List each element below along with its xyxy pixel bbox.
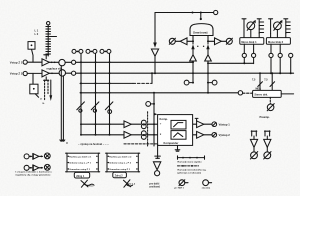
node junction J1 [192,12,194,14]
O2 slash [213,133,216,136]
trimmer TR3 [267,104,274,111]
amplifier down-triangle JA [250,139,257,147]
transistor bar Q2b [285,20,287,34]
node M2 drop dots [270,72,272,74]
compander box U2 [158,115,193,146]
O1 slash [213,123,216,126]
node R4 terminal ring [238,91,242,95]
wire JB stem [266,136,268,139]
legend wire sample 1 [178,156,205,159]
legend row A link [29,155,32,157]
legend sample 2 dots [182,165,184,167]
node extra ring [289,53,293,57]
amplifier down-triangle JB [264,139,271,147]
svg-text:regulátory síly, vstupy gramof: regulátory síly, vstupy gramofonů [15,174,51,177]
legend row B link [29,167,32,169]
wire dashed drop D1 [44,80,46,101]
wire arrow drop D3 [50,80,52,96]
legend row B amp [32,165,34,171]
wire leg1 extension [192,62,194,82]
rheostat arrow C3 [105,102,113,110]
deemph slash 1 [258,82,263,87]
LB2 source box [113,172,127,178]
node output ring O1 [212,122,217,127]
TR2 arrow [274,22,281,31]
decoder box U3 [253,90,282,97]
node mixer stem dot [200,18,202,20]
svg-text:linkový vstup L + P 1: linkový vstup L + P 1 [69,162,91,165]
ground feet V1 V2 [60,140,65,141]
node top terminal [214,10,218,14]
wire mixer leg 2 [207,36,209,45]
jack ring JB [264,152,271,159]
node leg1/T3L junction [192,40,194,42]
wire JA stem2 [253,147,255,152]
potentiometer P1 [59,59,65,65]
wire U3 right [281,93,293,95]
op-amp A2 [42,70,49,77]
svg-text:Mono blok 2: Mono blok 2 [268,40,284,44]
svg-text:Stereo dek.: Stereo dek. [254,94,268,97]
node tap ring on R4 [146,102,151,107]
legend box LB1 [67,153,98,172]
legend wire sample 2 [178,165,199,167]
tap ticks [155,156,161,158]
wire SB1 stub [189,82,193,84]
wire JA stem [253,136,255,139]
node A2 out dot [51,73,53,75]
node SB2 dot [207,82,209,84]
LB1 source box [74,172,89,178]
svg-text:1 vstupní zesilovače s korekce: 1 vstupní zesilovače s korekcemi a [15,171,52,174]
wire bus R4 [80,92,238,94]
arrow up on leg 1 [191,44,194,49]
node leg2/T3R junction [207,40,209,42]
legend row B wire [39,167,43,169]
LB2 row dots [108,156,109,157]
wire M1 outputs [244,44,253,53]
wire tap stub [151,103,154,105]
wire bus RB [81,134,197,136]
wire bus R1 [76,61,193,63]
deemph slash 2 [270,82,275,87]
node B1 dot [31,44,33,46]
node R1 dots [80,61,82,63]
node M2 rings [269,53,273,57]
legend row B target [44,164,50,170]
wire S3 link [104,50,107,52]
capacitor coupling CB [141,131,146,136]
wire ladder spine [47,25,49,56]
svg-text:Rozvody stereofonního sig.: Rozvody stereofonního sig. [178,168,207,171]
wire bus RA [81,123,197,125]
legend jack sym [179,180,185,186]
amplifier up-triangle T2b [205,55,212,61]
node M1 rings [242,53,246,57]
wire bus R5 [208,62,254,64]
node B2 marks [33,88,35,90]
LB1 row dots [68,156,69,157]
svg-text:(přístroje a zesilovače): (přístroje a zesilovače) [178,171,202,174]
IC box M1 [240,38,264,45]
LB1 flourish [81,180,88,187]
legend socket sym [203,180,209,186]
crystal box B2 [30,84,38,94]
wire T5 power tick [195,118,198,121]
Q2b ticks [286,22,290,33]
op-amp U1 mixer dome [190,24,213,36]
wire S1 link [76,50,79,52]
node R5 dots [243,62,245,64]
transistor bar Q1a [243,20,245,34]
amplifier down-triangle TAP [153,162,160,170]
node R4 dots [80,92,82,94]
wire input 1 to amp A1 [27,61,42,63]
wire vertical drop V1 [60,66,62,141]
node drop dots [259,72,261,74]
wire column C3 [109,53,111,134]
svg-text:Rozvody mono signálu: Rozvody mono signálu [178,162,203,164]
node output ring O2 [212,133,217,138]
node RB dots [80,134,82,136]
JA slash [250,152,257,159]
trimmer TR1 [247,22,255,30]
svg-text:U: U [66,141,68,145]
wire A2 bottom T-bar [44,77,49,80]
transistor bar Q1b [258,20,260,34]
wire P1 to node [65,61,71,63]
amplifier right-triangle T3R [215,38,222,45]
svg-text:zesilovač: zesilovač [149,186,160,189]
svg-text:Rozhlas po drátě st 2: Rozhlas po drátě st 2 [109,155,132,158]
capacitor coupling CA [141,120,146,125]
wire deemph drop 2 [271,73,273,90]
TR1 arrow head [253,20,256,23]
amplifier up-triangle T2a [190,55,197,61]
Q1a top tick [242,18,246,20]
wire dashed vertical at ovals [147,112,149,146]
wire stems into box M1 [244,30,259,38]
legend row A terminal [24,154,29,159]
Q1b ticks [259,22,263,33]
wire bus R3 [80,82,133,84]
node RA dots [95,123,97,125]
wire T1 to bus R2 [154,56,156,73]
switch pair S1 [72,49,76,53]
jack column JA plug [251,131,257,136]
trimmer TR2 [274,22,282,30]
LB1 ticks [66,153,100,172]
ground U2 [175,150,180,151]
Q1b top tick [257,18,261,20]
arrow D3 head [49,95,52,101]
wire left drop from top bus [154,13,156,44]
wire dashed drop D2 [47,80,49,95]
wire tap drop [157,144,159,158]
wire M2 outputs [271,44,280,53]
svg-text:Gramofon vstup P 1: Gramofon vstup P 1 [109,168,131,171]
node input terminal 1 [23,60,27,64]
wire dashed bottom tap [124,143,158,145]
wire R3 corner up [151,73,153,83]
node ring N1 [72,60,76,64]
LB2 flourish [124,180,131,187]
svg-text:fest.: fest. [89,185,94,188]
wire input 2 to amp A2 [27,72,42,74]
wire leg2 to T3R [208,40,215,42]
wire JB stem2 [266,147,268,152]
svg-text:Kompander: Kompander [164,141,179,145]
TR3 slash [267,104,274,111]
Q2b top tick [284,18,288,20]
svg-text:Zdroj 2: Zdroj 2 [115,175,124,178]
wire mixer leg 1 [192,36,194,45]
wire A1 output [49,61,59,63]
svg-text:linkový vstup L + P 2: linkový vstup L + P 2 [109,162,131,165]
IC box M2 [266,38,290,45]
wire R4 ring to decoder [243,92,253,94]
legend row A wire [39,155,43,157]
wire leg 1 lower [192,49,194,55]
potentiometer P2 [59,70,65,76]
wire bus R2 [76,72,294,74]
rheostat arrow C1 [77,102,85,110]
wire T5 out [204,123,212,125]
svg-text:Smešovač: Smešovač [193,31,208,35]
node junction J2 [200,12,202,14]
svg-text:Preamp.: Preamp. [260,115,271,119]
svg-text:př. HAT 1: př. HAT 1 [174,186,184,189]
wire U3 bottom dashed [269,97,271,103]
wire S2 link [90,50,93,52]
op-amp T5 [197,121,204,128]
node stub ring SB2 [212,80,217,85]
TR1 arrow [247,22,254,31]
potentiometer P3 [169,38,175,44]
wire bus R3 dashed part [133,82,152,84]
switch pair S3 [100,49,104,53]
arrow up on leg 2 [206,44,209,49]
filter box K1 [171,120,186,129]
amplifier down-triangle T1 [151,49,158,56]
svg-text:~ výstup na festival ~ ~ ~: ~ výstup na festival ~ ~ ~ [78,142,109,146]
node leg2 dots [197,46,198,47]
node R2 dots [80,72,82,74]
wire A2 output [49,72,59,74]
legend box LB2 [107,153,138,172]
wire M1 drops [244,58,253,64]
svg-text:Rozhlas po drátě st 1: Rozhlas po drátě st 1 [69,155,92,158]
wire branch to box B1 [32,49,34,62]
svg-text:Vstup Z 2: Vstup Z 2 [10,72,23,76]
svg-text:Gramofon vstup P 1: Gramofon vstup P 1 [69,168,91,171]
op-amp T4a [124,121,131,128]
jack ring JA [251,152,258,159]
svg-text:u.: u. [43,102,46,105]
svg-text:Výstup 2: Výstup 2 [219,133,231,137]
potentiometer P4 [226,38,232,44]
rheostat arrow C2 [91,102,99,110]
TR2 arrow head [280,20,283,23]
svg-text:MDA: MDA [256,87,262,90]
wire T3R to P4 [221,40,226,42]
wire M2 drops [271,58,291,74]
svg-text:Zdroj 1: Zdroj 1 [76,175,85,178]
node A1 out dots [51,62,53,64]
filter box K2 [171,131,186,140]
wire T3L to leg1 [187,40,193,42]
wire T2b down through buses [207,61,209,93]
node stub ring SB1 [184,80,189,85]
wire stem to mixer U1 [200,13,202,20]
wiper P4 [226,38,232,44]
wire SB2 stub [208,82,212,84]
svg-text:Vstup Z 1: Vstup Z 1 [10,60,23,64]
node input terminal 2 [23,71,27,75]
svg-text:Výstup 1: Výstup 1 [219,123,231,127]
wire column C1 [80,53,82,134]
legend row B terminal [24,165,29,170]
op-amp T6 [197,131,204,138]
wire T6 out [204,134,212,136]
op-amp A1 [42,59,49,66]
wire T2a to R1 [192,61,194,62]
wire deemph drop 1 [259,73,261,90]
wire vertical drop V2 [62,76,64,140]
wire leg 2 lower [207,49,209,55]
legend row A amp [32,154,34,160]
legend sample 1 dots [182,157,184,159]
node R3 dots [80,82,82,84]
arrow down on left drop [153,43,157,48]
op-amp T4b [124,131,131,138]
legend row A target [44,153,50,159]
wire control drop V154 [153,93,155,146]
wire stems into box M2 [271,30,286,38]
wire branch to box B2 [32,73,34,84]
K2 curve [174,133,183,137]
crystal box B1 [28,42,35,50]
amplifier left-triangle T3L [180,38,187,45]
wiper P3 [169,38,175,44]
node ring N2 [72,71,76,75]
jack column JB plug [265,131,271,136]
svg-text:zásuvka: zásuvka [202,187,211,189]
node V154 dots [153,103,155,105]
svg-text:Mono blok 1: Mono blok 1 [241,40,257,44]
arrow into box [154,113,158,116]
svg-text:L 2: L 2 [35,32,39,36]
JB slash [264,152,271,159]
wire top bus [155,12,214,14]
transistor bar Q2a [270,20,272,34]
wire U2 ground stem [177,145,179,149]
jack ring TAP [155,171,160,176]
LB2 ticks [106,153,140,172]
wire P2 to node [66,72,72,74]
Q2a top tick [269,18,273,20]
ladder ticks [46,27,57,55]
svg-text:L 1: L 1 [35,28,39,32]
connector ladder CN1 [47,22,50,25]
K1 curve [174,123,183,127]
switch pair S2 [86,49,90,53]
svg-text:Komp.: Komp. [160,117,169,121]
svg-text:Filtr 1,2: Filtr 1,2 [127,183,136,186]
wire column C2 [95,53,97,134]
wire B2 tail [35,94,38,97]
node SB1 dot [192,82,194,84]
wire A1 top T-bar [44,55,49,59]
wire P3 to T3L [175,40,180,42]
